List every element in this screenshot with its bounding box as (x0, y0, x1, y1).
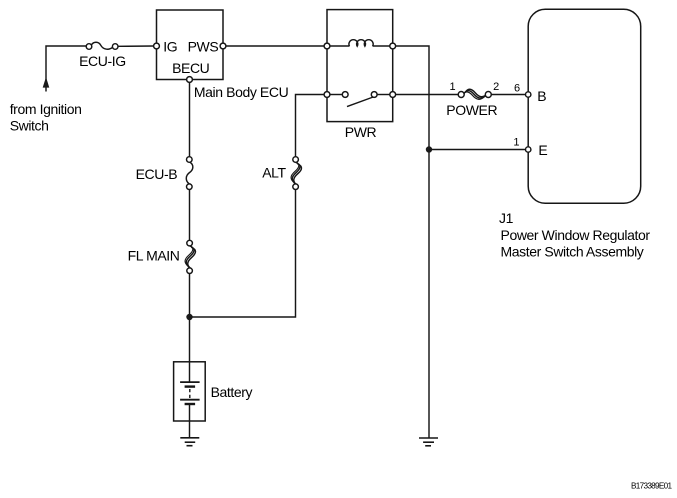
relay PWR box (327, 10, 393, 122)
label IG (163, 38, 177, 54)
svg-text:Switch: Switch (10, 117, 49, 133)
label from Ignition Switch (10, 101, 82, 133)
relay coil wire left stub (330, 45, 350, 47)
connector J1 box (528, 9, 641, 203)
label E (538, 142, 547, 158)
label Battery (211, 384, 253, 400)
label Power Window Regulator Master Switch Assembly (501, 227, 651, 260)
battery BT1 box (174, 362, 206, 421)
svg-text:Battery: Battery (211, 384, 253, 400)
svg-text:from Ignition: from Ignition (10, 101, 82, 117)
svg-text:E: E (538, 142, 547, 158)
pin label 1 (POWER fuse) (449, 81, 455, 93)
label POWER (446, 102, 497, 118)
fusible link FL MAIN (185, 240, 195, 273)
relay switch contact stub right (377, 94, 390, 96)
label B173389E01 (631, 482, 672, 491)
label ECU-B (136, 166, 178, 182)
svg-text:Main Body ECU: Main Body ECU (194, 84, 289, 100)
junction node (E wire to ground riser) (426, 146, 432, 152)
svg-text:1: 1 (513, 137, 519, 149)
svg-text:FL MAIN: FL MAIN (128, 247, 180, 263)
fuse ECU-B (186, 157, 193, 190)
relay switch blade (347, 97, 373, 107)
pin relay coil left (324, 43, 330, 49)
relay coil L1 (349, 40, 373, 47)
label ALT (262, 165, 286, 181)
relay switch contact right (371, 92, 377, 98)
fuse POWER (458, 89, 491, 99)
battery cells (180, 382, 200, 404)
label J1 (499, 210, 514, 226)
pin PWS (220, 43, 226, 49)
pin relay switch right (390, 92, 396, 98)
label B (537, 88, 546, 104)
relay switch contact left (342, 92, 348, 98)
pin IG (154, 43, 160, 49)
pin label 6 (connector B) (514, 82, 520, 94)
wire BECU to ECU-B fuse (189, 82, 191, 156)
svg-text:B173389E01: B173389E01 (631, 482, 672, 491)
wire POWER fuse to pin B (491, 94, 525, 96)
svg-text:PWS: PWS (188, 38, 219, 54)
ground (left, battery) (180, 438, 199, 446)
fusible link ALT (291, 157, 301, 190)
label PWR (345, 124, 377, 140)
svg-text:IG: IG (163, 38, 177, 54)
fuse ECU-IG (86, 42, 118, 49)
svg-text:ECU-B: ECU-B (136, 166, 178, 182)
svg-text:Master Switch Assembly: Master Switch Assembly (501, 244, 644, 260)
svg-text:POWER: POWER (446, 102, 497, 118)
svg-text:B: B (537, 88, 546, 104)
svg-text:ECU-IG: ECU-IG (79, 53, 126, 69)
svg-text:ALT: ALT (262, 165, 286, 181)
ground (right, E/relay coil) (419, 438, 438, 446)
pin relay coil right (390, 43, 396, 49)
wire ECU-IG fuse to IG pin (118, 45, 154, 47)
relay switch contact stub left (330, 94, 342, 96)
junction node battery positive (186, 314, 192, 320)
svg-text:BECU: BECU (172, 60, 210, 76)
label BECU (172, 60, 210, 76)
label FL MAIN (128, 247, 180, 263)
pin label 2 (POWER fuse) (493, 81, 499, 93)
wire PWS to relay coil (226, 45, 324, 47)
wire E (429, 149, 526, 151)
wire junction to ALT branch (190, 190, 296, 317)
svg-text:1: 1 (449, 81, 455, 93)
relay coil wire right stub (373, 45, 390, 47)
wire ALT branch to relay switch (296, 95, 325, 157)
pin B (526, 92, 531, 97)
svg-text:2: 2 (493, 81, 499, 93)
wire battery negative to ground (189, 404, 191, 437)
label Main Body ECU (194, 84, 289, 100)
wire FL MAIN to battery (189, 274, 191, 383)
svg-text:PWR: PWR (345, 124, 377, 140)
label PWS (188, 38, 219, 54)
pin E (526, 147, 531, 152)
svg-text:J1: J1 (499, 210, 514, 226)
wire from ignition switch (vertical riser and top run to fuse) (46, 46, 86, 92)
pin label 1 (connector E) (513, 137, 519, 149)
pin BECU (187, 77, 193, 83)
arrowhead from ignition switch (43, 77, 50, 88)
wire relay coil to ground riser (396, 46, 429, 438)
wire ECU-B fuse to FL MAIN (189, 190, 191, 241)
pin relay switch left (324, 92, 330, 98)
Main Body ECU box (157, 10, 224, 80)
svg-text:6: 6 (514, 82, 520, 94)
label ECU-IG (79, 53, 126, 69)
svg-text:Power Window Regulator: Power Window Regulator (501, 227, 651, 243)
wire relay switch to POWER fuse (396, 94, 459, 96)
